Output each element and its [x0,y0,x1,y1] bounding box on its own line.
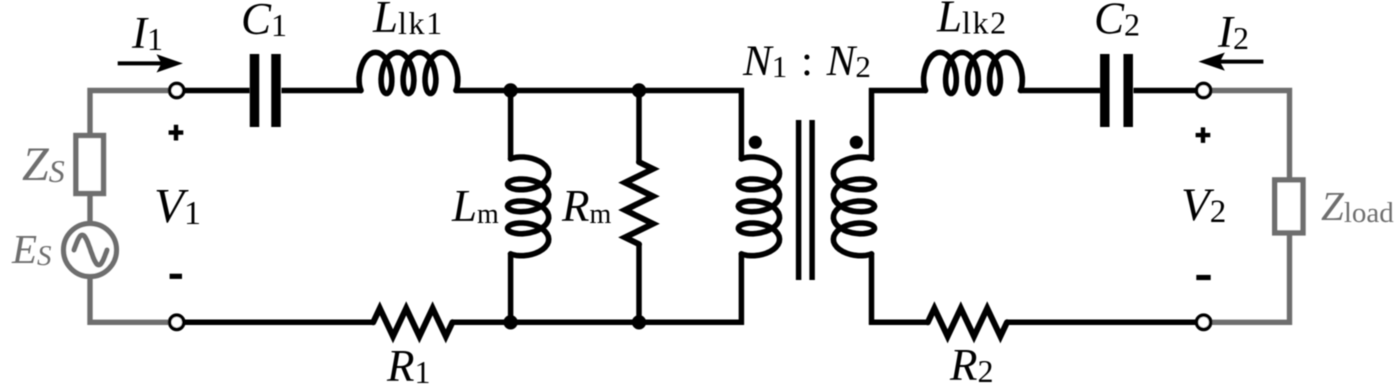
wire bottom-left (terminal to R1) [184,320,373,326]
plus sign V2 [1196,127,1211,142]
polarity dot secondary [850,136,863,149]
wire R1 to primary [452,320,744,326]
transformer secondary wire bottom [869,253,875,325]
source ES circle [64,224,117,277]
svg-text:C1: C1 [241,0,287,44]
terminal top-right [1197,83,1211,97]
svg-text:N1 : N2: N1 : N2 [742,38,871,85]
wire Rm branch top stub [636,88,642,162]
capacitor C2 plates [1105,54,1128,127]
impedance ZS box [76,136,104,194]
terminal bottom-left [170,315,184,329]
terminal top-left [170,83,184,97]
wire C1 to Llk1 [282,88,363,94]
transformer primary wire bottom [739,253,745,325]
terminal bottom-right [1197,315,1211,329]
transformer primary winding [738,157,779,256]
impedance Zload box [1275,180,1303,233]
minus sign V1 [170,274,182,279]
resistor R2 zigzag [928,308,1007,336]
polarity dot primary [749,136,762,149]
inductor Llk1 coil [359,52,458,93]
minus sign V2 [1196,275,1210,280]
inductor Llk2 coil [924,52,1023,93]
inductor Lm coil [508,157,549,256]
wire Lm branch top stub [508,88,514,160]
junction dot bottom Lm [503,315,517,329]
plus sign V1 [169,125,184,141]
svg-text:Llk2: Llk2 [936,0,1008,42]
wire secondary to Llk2 [869,88,927,94]
wire top-left (terminal to C1) [184,88,250,94]
arrow I2 (left) [1217,60,1263,64]
junction dot top Rm [632,83,646,97]
transformer secondary winding [833,157,874,256]
wire C2 to terminal [1134,88,1197,94]
wire source loop (gray, left) [90,91,170,323]
wire Rm branch bottom stub [636,244,642,325]
svg-text:Llk1: Llk1 [372,0,444,42]
capacitor C1 plates [255,54,277,127]
wire Lm branch bottom stub [508,253,514,325]
wire Llk2 to C2 [1020,88,1100,94]
wire secondary to R2 [869,320,928,326]
junction dot top Lm [503,83,517,97]
arrow I1 (right) [118,61,164,65]
wire load loop (gray, right) [1211,91,1290,323]
source ES sine wave [74,235,107,265]
resistor R1 zigzag [373,308,452,336]
transformer primary wire top [739,88,745,160]
junction dot bottom Rm [632,315,646,329]
resistor Rm zigzag [625,162,653,244]
transformer secondary wire top [869,88,875,160]
wire Llk1 to primary [457,88,745,94]
transformer core lines [799,120,813,280]
svg-text:C2: C2 [1094,0,1140,44]
wire R2 to terminal [1007,320,1196,326]
